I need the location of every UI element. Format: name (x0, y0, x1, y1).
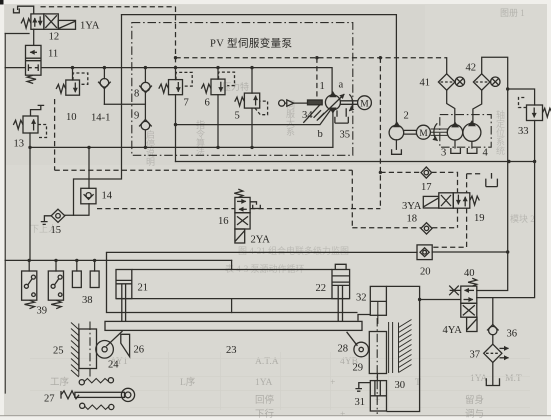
svg-text:30: 30 (395, 380, 406, 391)
valve 16 (2YA pilot valve) (235, 197, 250, 229)
tank stub left of check 15 (41, 216, 51, 225)
tank 35 (pump case drain) (335, 108, 348, 123)
svg-text:a: a (339, 80, 344, 91)
spring of valve 33 (543, 108, 551, 117)
tank near valve 19 (486, 173, 498, 187)
pilot dashed valve19 bottom to check18 (352, 208, 457, 228)
blade 26 (121, 334, 130, 356)
pump 3 (447, 123, 462, 140)
pilot dashed x380 down (379, 58, 381, 209)
wire servo supply y124 (176, 110, 331, 125)
svg-text:36: 36 (507, 329, 518, 340)
valve 33 (pressure valve) (527, 105, 543, 121)
wire check8/9 cross link (104, 103, 145, 105)
node connector38a tap (75, 259, 78, 262)
solenoid of valve 12 (58, 20, 75, 29)
valve 7 (pressure valve) (169, 80, 183, 95)
svg-text:3: 3 (441, 148, 446, 159)
svg-text:6: 6 (205, 98, 210, 109)
svg-text:4YA: 4YA (443, 325, 463, 336)
svg-text:29: 29 (353, 363, 364, 374)
spring below valve 11 (27, 75, 36, 83)
wire servo return rail y147 (13,14,9,6,5 drains) (30, 146, 333, 148)
svg-text:28: 28 (338, 344, 349, 355)
svg-text:L序: L序 (180, 376, 196, 388)
svg-text:10: 10 (66, 112, 77, 123)
wall 25 hatching (71, 323, 79, 378)
guide block of roller 24 (79, 329, 97, 369)
pilot dashed corner down to rail (175, 7, 177, 67)
node servo supply tap (174, 123, 177, 126)
wire check8 branch (144, 68, 146, 83)
svg-text:39: 39 (37, 306, 48, 317)
node pilot rail left (174, 56, 177, 59)
wire check9 drain (144, 130, 146, 148)
cylinder 31 (370, 381, 386, 411)
node valve6 drain junction (216, 146, 219, 149)
check valve 9 (139, 120, 152, 130)
pilot dashed left box edge (54, 99, 56, 170)
node switch39b tap (54, 259, 57, 262)
cylinder 21 (116, 270, 132, 299)
spring below switch 39b (51, 300, 61, 309)
valve 11 (pressure reducing valve) (26, 45, 42, 75)
svg-text:调与: 调与 (465, 409, 484, 420)
drain stub and tank of valve 16 (250, 202, 260, 209)
valve 12 (2/2 solenoid valve 1YA) (31, 14, 58, 29)
svg-text:20: 20 (420, 267, 431, 278)
pilot dashed rail y57.7 (176, 57, 447, 59)
pressure switch 39a (22, 271, 37, 300)
valve 13 (relief valve) (23, 116, 38, 133)
tank vent pipe above valve 12 (14, 6, 34, 14)
svg-text:5: 5 (235, 111, 240, 122)
piston rods of cylinder 21 (122, 284, 126, 321)
node valve5 tap on P line (250, 66, 253, 69)
wire valve13 line down to switch manifold (29, 133, 31, 260)
spring of valve 12 (21, 19, 31, 28)
wire check8 to check9 (144, 92, 146, 119)
node valve14 riser junction (87, 146, 90, 149)
roller 24 (96, 341, 114, 359)
solenoid 4YA of valve 40 (467, 317, 477, 331)
svg-text:M.T: M.T (505, 374, 522, 384)
filter 42 (473, 74, 500, 90)
svg-text:1: 1 (320, 81, 325, 92)
servo valve 34 (279, 100, 325, 123)
wire solid pump box top (122, 15, 397, 126)
wire right riser x508 (477, 89, 508, 291)
node pilot line to check17 (379, 171, 382, 174)
svg-text:1YA: 1YA (255, 378, 273, 388)
wire valve6 supply (217, 68, 219, 80)
wire left return: pump box edge down-left to check15 line (74, 15, 122, 215)
svg-text:轴定位系统: 轴定位系统 (495, 109, 505, 156)
blocked port X of valve 40 (449, 286, 461, 296)
svg-text:35: 35 (340, 130, 351, 141)
svg-text:40: 40 (464, 268, 475, 279)
wire valve33 supply (508, 89, 535, 105)
svg-text:37: 37 (470, 350, 481, 361)
wire tank rail y161 (176, 161, 535, 163)
dash-dot pumps34 enclosure (440, 115, 491, 148)
node pilot rail servo tap (315, 56, 318, 59)
svg-text:工序: 工序 (50, 376, 70, 388)
wire valve5 drain (251, 108, 253, 147)
wire valve33 to tank rail (534, 121, 536, 162)
wire valve10 branch (72, 68, 74, 80)
check valve 8 (139, 82, 152, 92)
press bed table (105, 321, 362, 330)
svg-text:b: b (318, 129, 323, 140)
tank below pump 4 (467, 148, 477, 153)
svg-text:23: 23 (226, 345, 237, 356)
wire filter42 pipes (473, 57, 508, 123)
svg-text:33: 33 (518, 126, 529, 137)
svg-text:+: + (330, 378, 335, 388)
wire step between head line and beam (231, 260, 233, 312)
wire valve6 drain (217, 95, 219, 148)
wire pump3 tank stub (454, 140, 456, 148)
wire check36 filter37 branch (492, 298, 494, 385)
beam 23 top and bottom (116, 270, 350, 299)
piston rods of cylinder 22 (338, 285, 342, 321)
wire switch manifold (5, 259, 231, 261)
svg-text:1YA: 1YA (80, 21, 100, 32)
wire pump2 tank stub (395, 140, 397, 150)
node connector38b tap (93, 259, 96, 262)
valve 14 (check valve in block) (81, 188, 96, 204)
bracket at right bed end (347, 332, 358, 346)
spring roller mechanism 27 (61, 378, 135, 410)
pump 2 (auxiliary pump) (389, 122, 404, 140)
wire valve20 branch line (432, 251, 508, 253)
node valve20 line junction (506, 250, 509, 253)
cylinder 32 (370, 286, 386, 324)
wire main pressure line P (5, 68, 332, 95)
wire manifold risers to switches (29, 260, 94, 271)
node filter42 outlet junction (506, 87, 509, 90)
solenoid 3YA of valve 19 (423, 196, 439, 208)
spring below switch 39a (25, 300, 35, 309)
pilot line of valve 13 (38, 125, 47, 138)
svg-text:14-1: 14-1 (91, 113, 110, 124)
pilot dashed big box top (41, 6, 176, 8)
svg-text:18: 18 (407, 214, 418, 225)
valve 10 (pressure valve) (66, 80, 80, 95)
check valve 14-1 (98, 79, 111, 89)
node valve7 tap on P line (174, 66, 177, 69)
valve 5 (pressure valve) (244, 93, 259, 108)
pilot dashed y172 to check17 valve19 (380, 172, 457, 192)
pipe from cylinder 32 (358, 315, 370, 321)
link to roller 24 (106, 331, 122, 346)
dash-dot centerline cylinders 29 31 (376, 318, 378, 414)
svg-text:3YA: 3YA (402, 201, 422, 212)
svg-text:图册 1: 图册 1 (500, 8, 525, 18)
pump 4 (463, 121, 481, 141)
spring above valve 40 (468, 278, 477, 286)
tank below filter 37 (486, 378, 499, 385)
svg-text:M: M (419, 129, 428, 139)
svg-text:4: 4 (483, 148, 489, 159)
svg-text:19: 19 (474, 213, 485, 224)
wire valve7 drain to tank rail (175, 95, 177, 162)
rod between 29 and 31 (375, 374, 380, 396)
wire head line to valve20 (107, 251, 418, 253)
svg-text:21: 21 (138, 283, 149, 294)
motor M of pump 1 (341, 94, 372, 111)
svg-text:24: 24 (108, 360, 119, 371)
pilot line of valve 10 (73, 73, 88, 84)
pilot dashed y208 to valve16 (97, 208, 380, 210)
wire filter41 pipes (447, 58, 455, 125)
svg-text:42: 42 (466, 63, 477, 74)
pilot dashed x352 down (351, 170, 353, 228)
svg-text:16: 16 (218, 216, 229, 227)
svg-text:表 4-3 泵源动作循环: 表 4-3 泵源动作循环 (225, 263, 305, 274)
svg-text:图 4-21 组合电联多级力监图: 图 4-21 组合电联多级力监图 (238, 245, 349, 256)
node valve33 drain junction (533, 160, 536, 163)
node cylinder32 line junction (418, 298, 421, 301)
wire valve11 to valve12 (33, 29, 35, 45)
wire pump4 tank stub (471, 141, 473, 148)
wire valve5 supply (251, 68, 253, 94)
svg-text:27: 27 (44, 394, 55, 405)
svg-text:8: 8 (134, 89, 139, 100)
pilot line of valve 5 (255, 101, 268, 115)
node check8 tap on P line (144, 66, 147, 69)
svg-text:41: 41 (420, 78, 431, 89)
svg-text:压力特: 压力特 (222, 81, 249, 92)
bracket left of cylinder 31 (355, 383, 370, 392)
pilot line of valve 33 (519, 98, 527, 108)
tank below pump 3 (451, 148, 461, 153)
roller 28 (354, 342, 369, 357)
node pilot rail right tap (379, 56, 382, 59)
valve 20 (check valve in block) (417, 245, 432, 260)
spring of valve 5 (235, 97, 245, 106)
gauge connector 38b (90, 271, 99, 288)
wire valve40 through line (420, 299, 461, 301)
tank vent pipe above valve 13 (31, 105, 45, 116)
svg-text:17: 17 (421, 182, 432, 193)
pilot dashed valve19 drain tank (467, 174, 483, 193)
node valve6 tap on P line (216, 66, 219, 69)
svg-text:2: 2 (404, 111, 409, 122)
svg-text:12: 12 (49, 32, 60, 43)
node switch39a tap (28, 259, 31, 262)
pilot dashed valve19 to valve20 (432, 208, 467, 247)
svg-text:38: 38 (82, 295, 93, 306)
svg-text:回停: 回停 (255, 394, 275, 406)
wire pump1 case line b down to servo return rail (332, 110, 334, 147)
dash-dot pump unit enclosure (132, 23, 353, 156)
valve 6 (pressure valve) (211, 79, 225, 95)
svg-text:模块 2: 模块 2 (510, 213, 535, 224)
spring above valve 16 (234, 189, 243, 197)
svg-text:PV 型伺服变量泵: PV 型伺服变量泵 (210, 37, 293, 50)
svg-text:下行: 下行 (255, 408, 275, 420)
wire valve7 supply (175, 67, 177, 80)
svg-text:7: 7 (184, 98, 189, 109)
pressure switch 39b (48, 271, 63, 300)
svg-text:15: 15 (51, 225, 62, 236)
wire from valve12 spring drain to left border (5, 33, 29, 35)
svg-text:25: 25 (53, 346, 64, 357)
svg-text:32: 32 (356, 293, 367, 304)
wire valve14 up to rail (88, 147, 90, 188)
svg-text:34: 34 (302, 110, 313, 121)
motor M of pumps 2 3 4 (404, 123, 448, 140)
press housing frame (107, 252, 358, 312)
solenoid 2YA of valve 16 (235, 229, 245, 243)
check valve 18 (orifice) (421, 223, 432, 234)
cylinder 22 (332, 264, 350, 298)
valve 19 (3YA directional valve) (439, 193, 470, 208)
dash-dot centerline guide 25 (89, 322, 91, 377)
svg-text:14: 14 (102, 191, 113, 202)
spring of valve 7 (159, 84, 169, 93)
pilot dashed bottom y170 (55, 169, 353, 171)
page frame left border (4, 34, 6, 394)
node check9 drain junction (144, 146, 147, 149)
cylinder 29 (369, 332, 386, 374)
wire check14-1 branch (103, 68, 105, 105)
svg-text:1YA: 1YA (470, 374, 488, 384)
wire right riser x534 to valve40 (477, 162, 535, 298)
check valve 36 (487, 325, 499, 335)
svg-text:M: M (360, 100, 369, 110)
svg-text:22: 22 (316, 283, 327, 294)
spring of valve 6 (201, 84, 211, 93)
valve 40 (pilot operated valve) (461, 286, 477, 317)
svg-text:2YA: 2YA (251, 235, 271, 246)
spring of valve 13 (13, 120, 23, 129)
svg-text:11: 11 (48, 49, 58, 60)
wire check15 to valve14 (65, 204, 89, 216)
gauge connector 38a (72, 271, 81, 288)
spring of valve 19 (470, 196, 480, 205)
node tank rail crossing (507, 160, 510, 163)
svg-text:31: 31 (355, 397, 366, 408)
svg-text:26: 26 (134, 345, 145, 356)
pilot line of valve 6 (219, 72, 235, 86)
pilot line of valve 7 (176, 72, 192, 86)
node valve10 tap on P line (71, 66, 74, 69)
filter 37 (484, 344, 509, 362)
svg-text:9: 9 (134, 111, 139, 122)
node check14-1 tap on P line (103, 66, 106, 69)
spring of valve 10 (56, 84, 66, 93)
pump 1 (servo variable pump) (318, 92, 344, 119)
check valve 15 (51, 209, 65, 222)
node valve5 drain junction (250, 146, 253, 149)
tank below pump 2 (392, 149, 402, 154)
wall 30 plates and hatching (389, 320, 412, 374)
pilot dashed servo branch (316, 58, 318, 100)
frame outline of lower unit (386, 286, 419, 411)
svg-text:留身: 留身 (465, 394, 484, 406)
filter 41 (438, 74, 464, 90)
svg-text:13: 13 (14, 139, 25, 150)
check valve 17 (orifice) (421, 167, 432, 178)
node valve13 line junction (28, 146, 31, 149)
